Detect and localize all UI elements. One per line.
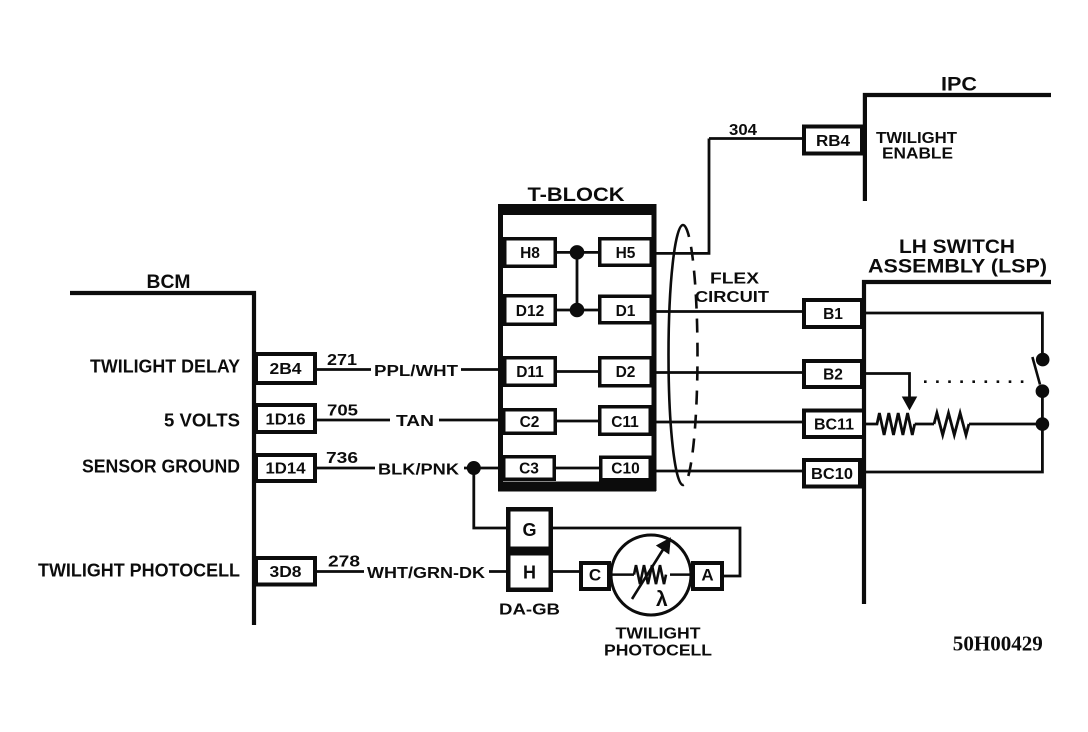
T-BLOCK left bar: [498, 204, 503, 491]
svg-text:D2: D2: [616, 364, 636, 381]
pin BC11: [804, 411, 864, 438]
svg-text:1D16: 1D16: [266, 412, 306, 429]
terminal A: [693, 563, 722, 589]
resistor link wire: [915, 423, 934, 426]
svg-text:ENABLE: ENABLE: [882, 146, 953, 163]
svg-text:IPC: IPC: [941, 74, 977, 96]
photocell resistor zigzag: [634, 565, 666, 584]
wire D1 to B1: [657, 310, 803, 313]
wire H to C: [553, 570, 579, 573]
wire H5 to 304 riser: [657, 139, 710, 254]
svg-text:TWILIGHT: TWILIGHT: [876, 130, 957, 147]
switch contact dot middle: [1036, 385, 1049, 398]
svg-text:D11: D11: [516, 364, 544, 381]
wire resistor to lower dot: [969, 423, 1042, 426]
svg-text:TWILIGHT DELAY: TWILIGHT DELAY: [90, 357, 240, 377]
wire D11 to D2: [557, 370, 598, 373]
svg-text:5 VOLTS: 5 VOLTS: [164, 411, 240, 431]
wire 278 WHT/GRN-DK segment a: [315, 570, 364, 573]
svg-text:C3: C3: [519, 461, 539, 478]
wire 278 WHT/GRN-DK segment b: [489, 570, 506, 573]
svg-text:H8: H8: [520, 245, 540, 262]
svg-text:2B4: 2B4: [270, 361, 302, 378]
svg-text:DA-GB: DA-GB: [499, 602, 560, 619]
svg-text:736: 736: [326, 450, 358, 467]
IPC connector outline: [865, 95, 1051, 201]
svg-text:304: 304: [729, 122, 757, 139]
pin BC10: [804, 460, 860, 487]
resistor BC11 zigzag 1: [866, 413, 915, 435]
wire G to photocell A loop: [553, 528, 740, 576]
svg-text:BLK/PNK: BLK/PNK: [378, 462, 460, 479]
resistor zigzag 2: [934, 413, 969, 435]
wire lower dot to BC10: [864, 424, 1042, 472]
photocell wire to A: [670, 573, 693, 576]
wire 271 PPL/WHT segment b: [461, 368, 503, 371]
svg-text:271: 271: [327, 352, 357, 369]
T-BLOCK right bar: [652, 204, 657, 491]
wire middle dot to lower dot: [1041, 391, 1044, 424]
terminal H: [508, 553, 551, 590]
wire C10 to BC10: [657, 470, 803, 473]
svg-text:B2: B2: [823, 367, 843, 384]
svg-text:1D14: 1D14: [266, 461, 306, 478]
wire D2 to B2: [657, 371, 803, 374]
photocell circle: [611, 535, 691, 615]
wire H8 to H5: [557, 251, 598, 254]
svg-text:H5: H5: [616, 245, 636, 262]
terminal C2: [504, 410, 556, 434]
junction dot sensor ground: [467, 462, 480, 475]
svg-text:TAN: TAN: [396, 413, 434, 430]
svg-text:PHOTOCELL: PHOTOCELL: [604, 643, 712, 660]
svg-text:C11: C11: [611, 414, 639, 431]
svg-text:PPL/WHT: PPL/WHT: [374, 363, 458, 380]
FLEX CIRCUIT ellipse solid left arc: [669, 225, 683, 485]
svg-text:BC11: BC11: [814, 417, 854, 434]
junction dot H row: [570, 246, 584, 260]
wire B2 to wiper: [864, 374, 910, 399]
wire junction vertical H-D: [576, 252, 579, 310]
FLEX CIRCUIT ellipse dashed right arc: [683, 225, 697, 485]
svg-text:ASSEMBLY (LSP): ASSEMBLY (LSP): [868, 256, 1047, 278]
wire from junction down to G: [474, 468, 506, 528]
svg-text:D1: D1: [616, 303, 636, 320]
wire C to photocell: [609, 573, 634, 576]
svg-text:λ: λ: [656, 588, 668, 611]
svg-text:50H00429: 50H00429: [953, 632, 1043, 656]
pin 1D14: [256, 455, 315, 481]
terminal H8: [505, 239, 556, 267]
wire B1 to switch common: [864, 313, 1042, 354]
wire C2 to C11: [557, 420, 598, 423]
pin RB4: [804, 127, 862, 154]
svg-text:SENSOR GROUND: SENSOR GROUND: [82, 457, 240, 477]
svg-text:B1: B1: [823, 306, 843, 323]
junction dot D row: [570, 303, 584, 317]
wire 705 TAN segment b: [439, 419, 503, 422]
pin B2: [804, 361, 862, 387]
wire 736 BLK/PNK segment b: [464, 467, 503, 470]
svg-text:FLEX: FLEX: [710, 271, 759, 288]
svg-text:C2: C2: [520, 414, 540, 431]
BCM connector outline: [70, 293, 254, 625]
svg-text:C10: C10: [611, 461, 639, 478]
wire 736 BLK/PNK segment a: [315, 467, 375, 470]
svg-text:CIRCUIT: CIRCUIT: [695, 289, 769, 306]
svg-text:278: 278: [328, 554, 360, 571]
pin 1D16: [256, 405, 315, 432]
wire D12 to D1: [557, 309, 598, 312]
svg-text:T-BLOCK: T-BLOCK: [528, 184, 625, 206]
photocell arrowhead: [657, 538, 671, 553]
svg-text:BC10: BC10: [811, 466, 853, 483]
svg-text:H: H: [523, 563, 536, 583]
terminal D1: [600, 296, 652, 323]
terminal C10: [601, 457, 651, 480]
terminal C11: [600, 407, 651, 435]
wiper arrowhead: [903, 397, 917, 410]
svg-text:BCM: BCM: [147, 272, 191, 293]
terminal G: [508, 509, 551, 549]
dotted gang line: [924, 380, 1028, 383]
pin 3D8: [256, 558, 315, 585]
wire 705 TAN segment a: [315, 419, 390, 422]
wire 271 PPL/WHT segment a: [315, 368, 371, 371]
terminal D12: [505, 296, 556, 325]
pin B1: [804, 300, 862, 327]
svg-text:A: A: [701, 566, 713, 585]
svg-text:D12: D12: [516, 303, 544, 320]
switch contact dot top: [1036, 353, 1049, 366]
svg-text:3D8: 3D8: [270, 564, 302, 581]
photocell arrow diagonal: [632, 548, 664, 599]
svg-text:WHT/GRN-DK: WHT/GRN-DK: [367, 565, 485, 582]
svg-text:TWILIGHT: TWILIGHT: [616, 626, 701, 643]
terminal C3: [504, 457, 555, 480]
svg-text:C: C: [589, 566, 601, 585]
svg-text:RB4: RB4: [816, 133, 850, 150]
svg-text:TWILIGHT PHOTOCELL: TWILIGHT PHOTOCELL: [38, 561, 240, 581]
wire C3 to C10: [556, 467, 599, 470]
svg-text:G: G: [522, 520, 536, 540]
switch contact dot lower: [1036, 418, 1049, 431]
terminal D2: [600, 358, 652, 386]
pin 2B4: [256, 354, 315, 383]
T-BLOCK bottom bar: [498, 482, 656, 492]
LH switch assembly outline: [864, 282, 1051, 604]
terminal H5: [600, 239, 652, 266]
terminal D11: [505, 358, 556, 386]
switch blade: [1032, 357, 1040, 385]
terminal C: [581, 563, 609, 589]
svg-text:705: 705: [327, 403, 358, 420]
T-BLOCK top bar: [498, 204, 656, 215]
wire C11 to BC11: [657, 421, 803, 424]
wire 304 horizontal: [709, 137, 802, 140]
